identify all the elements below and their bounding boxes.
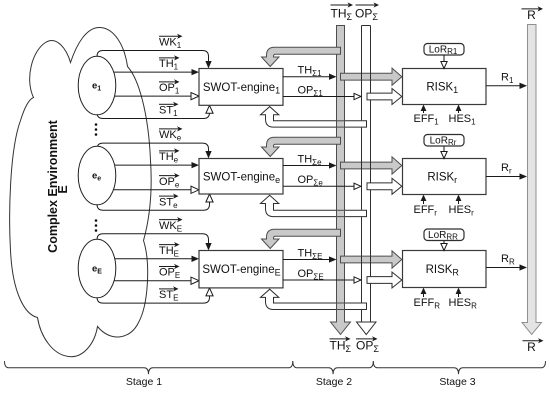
wire EFF1 into RISK1 bottom: [423, 110, 425, 114]
wire TH-sigma feedback loop into SWOT-enginee top: [262, 137, 341, 156]
environment element ee: [78, 146, 116, 205]
wire R1 from RISK1 to R bus: [486, 85, 521, 87]
wire TH-sigma feedback loop into SWOT-engineE top: [262, 229, 341, 248]
wire OP-sigma-1 from SWOT-engine to OP bus: [283, 96, 354, 98]
wire thick TH-sigma arrow into RISKR: [341, 251, 402, 268]
svg-text:R: R: [527, 8, 536, 22]
wire OP-sigma feedback loop into SWOT-enginee bottom: [261, 195, 367, 216]
block RISKr: [403, 159, 487, 195]
wire HESR into RISKR bottom: [458, 293, 460, 298]
wire WKe from ee to SWOT-engine top: [97, 143, 209, 170]
svg-text:SWOT-engineE: SWOT-engineE: [202, 264, 280, 278]
wire THE into SWOT-engine: [97, 258, 193, 260]
cloud Complex Environment: [10, 27, 152, 356]
wire LoRRr into RISKr top: [443, 146, 445, 152]
label OP1: [159, 81, 176, 83]
block LoRRr: [424, 135, 464, 147]
block RISK1: [403, 69, 487, 105]
svg-text:Stage 2: Stage 2: [316, 376, 352, 388]
label ST1: [159, 103, 175, 105]
label TH1: [159, 57, 176, 59]
environment element eE: [78, 239, 116, 298]
block RISKR: [403, 251, 487, 288]
wire EFFr into RISKr bottom: [423, 200, 425, 205]
svg-text:HESr: HESr: [449, 204, 475, 218]
label STE: [159, 288, 175, 290]
wire OPE into SWOT-engine: [97, 280, 192, 282]
label THe: [159, 150, 176, 152]
wire thick OP-sigma arrow into RISK1: [367, 89, 402, 105]
wire OP-sigma feedback loop into SWOT-engine1 bottom: [261, 107, 367, 128]
wire RR from RISKR to R bus: [486, 267, 521, 269]
block LoRRR: [424, 229, 464, 241]
svg-text:SWOT-enginee: SWOT-enginee: [203, 171, 280, 185]
wire WK1 from e1 to SWOT-engine top: [97, 51, 209, 81]
label TH-sigma top: [331, 4, 350, 6]
ellipsis dots between e1 and ee: [95, 123, 98, 126]
wire LoRR1 into RISK1 top: [443, 55, 445, 62]
svg-text:EFFr: EFFr: [414, 204, 438, 218]
wire TH-sigma-E from SWOT-engine to TH bus: [283, 259, 330, 261]
wire thick TH-sigma arrow into RISK1: [341, 68, 402, 85]
label OP-sigma bottom: [356, 338, 374, 340]
wire STE into SWOT-engine bottom: [97, 274, 210, 304]
bus R vertical bar: [522, 25, 542, 335]
wire THe into SWOT-engine: [97, 164, 193, 166]
bus TH-sigma vertical bar: [331, 26, 351, 335]
bus OP-sigma vertical bar: [361, 26, 363, 121]
wire OP1 into SWOT-engine: [97, 95, 192, 97]
wire OP-sigma feedback loop into SWOT-engineE bottom: [261, 289, 367, 309]
block SWOT-engine1: [199, 69, 283, 106]
wire OPe into SWOT-engine: [97, 189, 192, 191]
label OP-sigma top: [356, 4, 376, 6]
label WKE: [159, 219, 179, 221]
wire OP-sigma-E from SWOT-engine to OP bus: [283, 279, 354, 281]
brace Stage 2: [293, 361, 374, 374]
wire thick OP-sigma arrow into RISKR: [367, 272, 402, 288]
cloud label E (environment): [46, 119, 70, 252]
svg-text:Stage 1: Stage 1: [126, 376, 162, 388]
label STe: [159, 195, 175, 197]
wire TH-sigma-1 from SWOT-engine to TH bus: [283, 76, 330, 78]
wire EFFR into RISKR bottom: [423, 293, 425, 298]
wire STe into SWOT-engine bottom: [97, 181, 210, 211]
label OPe: [159, 175, 176, 177]
wire Rr from RISKr to R bus: [486, 176, 521, 178]
svg-text:E: E: [56, 185, 70, 193]
wire TH-sigma feedback loop into SWOT-engine1 top: [262, 47, 341, 66]
label WK1: [159, 35, 179, 37]
block SWOT-engineE: [199, 251, 283, 288]
svg-text:SWOT-engine1: SWOT-engine1: [203, 82, 280, 96]
label TH-sigma bottom: [330, 338, 347, 340]
block SWOT-enginee: [199, 159, 283, 195]
brace Stage 1: [5, 361, 293, 374]
ellipsis dots between ee and eE: [95, 219, 98, 222]
label R top: [522, 8, 540, 10]
wire LoRRR into RISKR top: [443, 241, 445, 245]
wire OP-sigma-e from SWOT-engine to OP bus: [283, 185, 354, 187]
wire thick TH-sigma arrow into RISKr: [341, 157, 402, 174]
wire HES1 into RISK1 bottom: [458, 110, 460, 114]
svg-text:RISKr: RISKr: [427, 172, 457, 186]
wire ST1 into SWOT-engine bottom: [97, 91, 210, 119]
block LoRR1: [424, 44, 464, 56]
label WKe: [159, 128, 179, 130]
wire TH1 into SWOT-engine: [97, 71, 193, 73]
label R bottom: [523, 340, 540, 342]
wire WKE from eE to SWOT-engine top: [97, 234, 209, 264]
svg-text:Stage 3: Stage 3: [439, 376, 475, 388]
wire HESr into RISKr bottom: [458, 200, 460, 205]
svg-text:R: R: [527, 340, 536, 354]
wire TH-sigma-e from SWOT-engine to TH bus: [283, 165, 330, 167]
label OPE: [159, 266, 176, 268]
brace Stage 3: [373, 361, 545, 374]
wire thick OP-sigma arrow into RISKr: [367, 178, 402, 194]
label THE: [159, 244, 176, 246]
environment element e1: [78, 56, 116, 115]
